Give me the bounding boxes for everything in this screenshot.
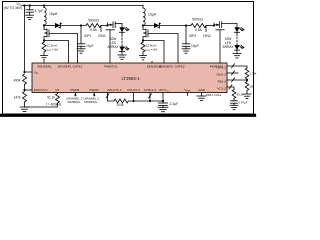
- svg-text:(6V TO 36V): (6V TO 36V): [4, 6, 22, 10]
- diode D2 schottky: [154, 23, 159, 28]
- wire PWMTG2 gate: [219, 30, 221, 63]
- label 32W LED ARRAY ch1: [107, 37, 119, 49]
- svg-text:40.2k: 40.2k: [237, 92, 245, 96]
- wire SENSEN1: [43, 52, 45, 56]
- svg-text:1.78k: 1.78k: [249, 72, 257, 76]
- LED string D5 32W array ch1: [121, 24, 123, 28]
- capacitor C1 4.7uF: [29, 6, 31, 10]
- svg-text:15µH: 15µH: [148, 13, 157, 17]
- ground C1: [26, 14, 34, 16]
- IC U1 LT3955-1 block: [32, 63, 227, 93]
- wire FB1-2: [227, 79, 247, 81]
- node source Q1: [43, 41, 45, 43]
- pin stub SENSEN2: [151, 61, 153, 63]
- net ISN1 stub: [100, 26, 102, 32]
- svg-text:2.2µF: 2.2µF: [170, 102, 179, 106]
- wire rail corner to L2: [142, 6, 144, 9]
- svg-text:3955-1 TA01a: 3955-1 TA01a: [206, 94, 222, 97]
- resistor R8 12.5mOhm sense ch2: [141, 42, 145, 52]
- svg-text:4.7µF: 4.7µF: [35, 9, 44, 13]
- transistor M2 PMOS PWM disconnect ch1: [106, 24, 108, 26]
- LED string D7 32W array ch2: [236, 24, 238, 28]
- node source Q2: [142, 41, 144, 43]
- resistor R2 12.5mOhm sense ch1: [42, 42, 46, 52]
- wire dashed LED continuation ch1: [121, 32, 123, 35]
- resistor R3 499k: [23, 74, 27, 84]
- capacitor C3 2.2uF: [159, 102, 168, 104]
- svg-text:ISN1: ISN1: [98, 34, 105, 38]
- svg-text:500mΩ: 500mΩ: [192, 18, 203, 22]
- svg-text:ISN2: ISN2: [203, 34, 210, 38]
- wire FAULT pulldown: [108, 93, 115, 101]
- resistor R6 100k: [114, 99, 128, 103]
- wire bottom rail to RT: [25, 103, 58, 107]
- ground LED string ch1: [118, 54, 126, 56]
- svg-text:PWMTG1: PWMTG1: [104, 65, 118, 69]
- ground GND pin: [201, 93, 203, 96]
- IC pin labels bottom: [34, 88, 206, 93]
- svg-text:0.5A: 0.5A: [90, 28, 98, 32]
- wire GATE2: [148, 34, 178, 64]
- wire R1 to PMOS: [101, 25, 108, 27]
- svg-text:CTRL1-2: CTRL1-2: [144, 88, 157, 92]
- net ISN2 stub: [205, 26, 207, 32]
- wire dashed LED continuation ch2: [236, 32, 238, 34]
- resistor R7 500mOhm: [191, 24, 206, 28]
- ground C4: [182, 48, 190, 50]
- svg-text:OVLO1-2: OVLO1-2: [127, 88, 140, 92]
- ground FB divider: [246, 92, 248, 94]
- ground VC network: [230, 104, 238, 106]
- svg-text:GATE1: GATE1: [73, 65, 83, 69]
- ground LED string ch2: [233, 53, 241, 55]
- svg-text:499k: 499k: [14, 79, 21, 83]
- node SW1: [43, 24, 45, 26]
- wire ISN1-2: [227, 72, 238, 74]
- svg-text:0.47µF: 0.47µF: [239, 101, 248, 105]
- svg-text:DIMMING: DIMMING: [68, 100, 82, 104]
- capacitor C4 10uF: [185, 26, 187, 44]
- transistor M4 PMOS PWM disconnect ch2: [213, 24, 215, 26]
- wire SW2 to D2: [143, 25, 154, 27]
- wire SENSEP1: [44, 41, 69, 64]
- LED D8 ch2: [234, 45, 239, 50]
- junction VIN riser: [23, 4, 25, 6]
- IC pin labels top: [37, 65, 223, 69]
- junction L1 top: [43, 4, 45, 6]
- node VIN label: [4, 2, 22, 10]
- wire INTVCC: [162, 93, 164, 103]
- pin stub SENSEN1: [43, 61, 45, 63]
- ground C2: [77, 48, 85, 50]
- node OUT2: [185, 24, 187, 26]
- ground EN divider: [20, 106, 29, 108]
- wire PWM1 input: [74, 93, 76, 96]
- border bottom thick: [1, 114, 255, 117]
- svg-text:51.1k: 51.1k: [47, 95, 55, 99]
- svg-text:ISN1-2: ISN1-2: [216, 73, 226, 77]
- resistor R1 500mOhm: [86, 24, 101, 28]
- wire D2 to node OUT2: [159, 25, 191, 27]
- transistor Q2 NMOS ch2: [143, 26, 146, 30]
- wire VC1-2: [227, 87, 234, 90]
- resistor R9 1.78k: [245, 68, 249, 79]
- wire ISP1-2: [227, 66, 247, 68]
- svg-text:15µH: 15µH: [49, 12, 58, 16]
- wire OVLO pin: [133, 93, 135, 101]
- wire SENSEN2: [142, 52, 144, 56]
- svg-text:DIMMING: DIMMING: [84, 100, 98, 104]
- border frame: [3, 2, 254, 115]
- svg-text:ISP2: ISP2: [189, 34, 196, 38]
- svg-text:VC1-2: VC1-2: [217, 87, 226, 91]
- svg-text:ISP1-2: ISP1-2: [217, 66, 227, 70]
- svg-text:SENSEP1: SENSEP1: [57, 65, 72, 69]
- transistor Q1 NMOS ch1: [44, 26, 47, 30]
- svg-text:0.5A: 0.5A: [195, 28, 203, 32]
- svg-text:10µF: 10µF: [191, 44, 199, 48]
- svg-text:147k: 147k: [14, 96, 21, 100]
- wire SENSEP2: [143, 41, 164, 64]
- svg-text:500mΩ: 500mΩ: [88, 18, 99, 22]
- resistor R5 51.1k RT: [57, 92, 59, 95]
- resistor R4 147k: [23, 92, 27, 102]
- svg-text:10k: 10k: [249, 85, 254, 89]
- svg-text:100k: 100k: [117, 103, 124, 107]
- node OUT1: [80, 24, 82, 26]
- svg-text:GATE2: GATE2: [175, 65, 185, 69]
- svg-text:f = 400kHz: f = 400kHz: [46, 103, 62, 107]
- svg-text:ISP1: ISP1: [84, 34, 91, 38]
- svg-text:SENSEN1: SENSEN1: [37, 65, 52, 69]
- resistor R11 40.2k: [232, 90, 236, 99]
- diode D1 schottky: [55, 23, 60, 28]
- wire SW1 to D1: [44, 25, 55, 27]
- svg-text:FB1-2: FB1-2: [218, 80, 227, 84]
- wire D1 to node OUT1: [60, 25, 86, 27]
- wire CTRL1-2: [149, 93, 151, 101]
- capacitor C5 0.47uF: [233, 98, 235, 100]
- inductor L2 15uH: [143, 8, 145, 26]
- svg-text:FAULT1-2: FAULT1-2: [108, 88, 122, 92]
- capacitor C2 10uF: [80, 26, 82, 44]
- svg-text:GND: GND: [198, 88, 206, 92]
- IC pin labels right: [216, 66, 226, 91]
- svg-text:10µF: 10µF: [86, 44, 94, 48]
- wire PWM2 input: [93, 93, 95, 96]
- wire VREF stub: [187, 93, 189, 96]
- wire R7 to PMOS: [206, 25, 214, 27]
- wire GATE1: [49, 34, 78, 64]
- wire VIN riser to IC: [25, 6, 33, 73]
- wire PWMTG1 gate: [109, 30, 111, 63]
- ground Q2 sense: [140, 55, 147, 57]
- svg-text:EN/UVLO: EN/UVLO: [34, 88, 48, 92]
- svg-text:ARRAY: ARRAY: [222, 45, 234, 49]
- node SW2: [142, 24, 144, 26]
- wire EN/UVLO: [25, 89, 33, 91]
- wire VIN top rail: [22, 5, 144, 7]
- label 32W LED ARRAY ch2: [222, 37, 234, 49]
- resistor R10 10k: [245, 80, 249, 92]
- junction C1 tap: [29, 4, 31, 6]
- LED D6 ch1: [119, 47, 124, 52]
- ground INTVCC: [158, 106, 168, 108]
- wire INTVCC rail: [128, 100, 163, 102]
- label channel dimming: [66, 97, 99, 104]
- inductor L1 15uH: [44, 8, 46, 26]
- svg-text:PWM1: PWM1: [70, 88, 80, 92]
- svg-text:LT3955-1: LT3955-1: [121, 76, 140, 81]
- svg-text:PWM2: PWM2: [89, 88, 99, 92]
- svg-text:RT: RT: [55, 88, 59, 92]
- svg-text:SENSEP2: SENSEP2: [159, 65, 174, 69]
- svg-text:ARRAY: ARRAY: [107, 45, 119, 49]
- ground Q1 sense: [41, 55, 48, 57]
